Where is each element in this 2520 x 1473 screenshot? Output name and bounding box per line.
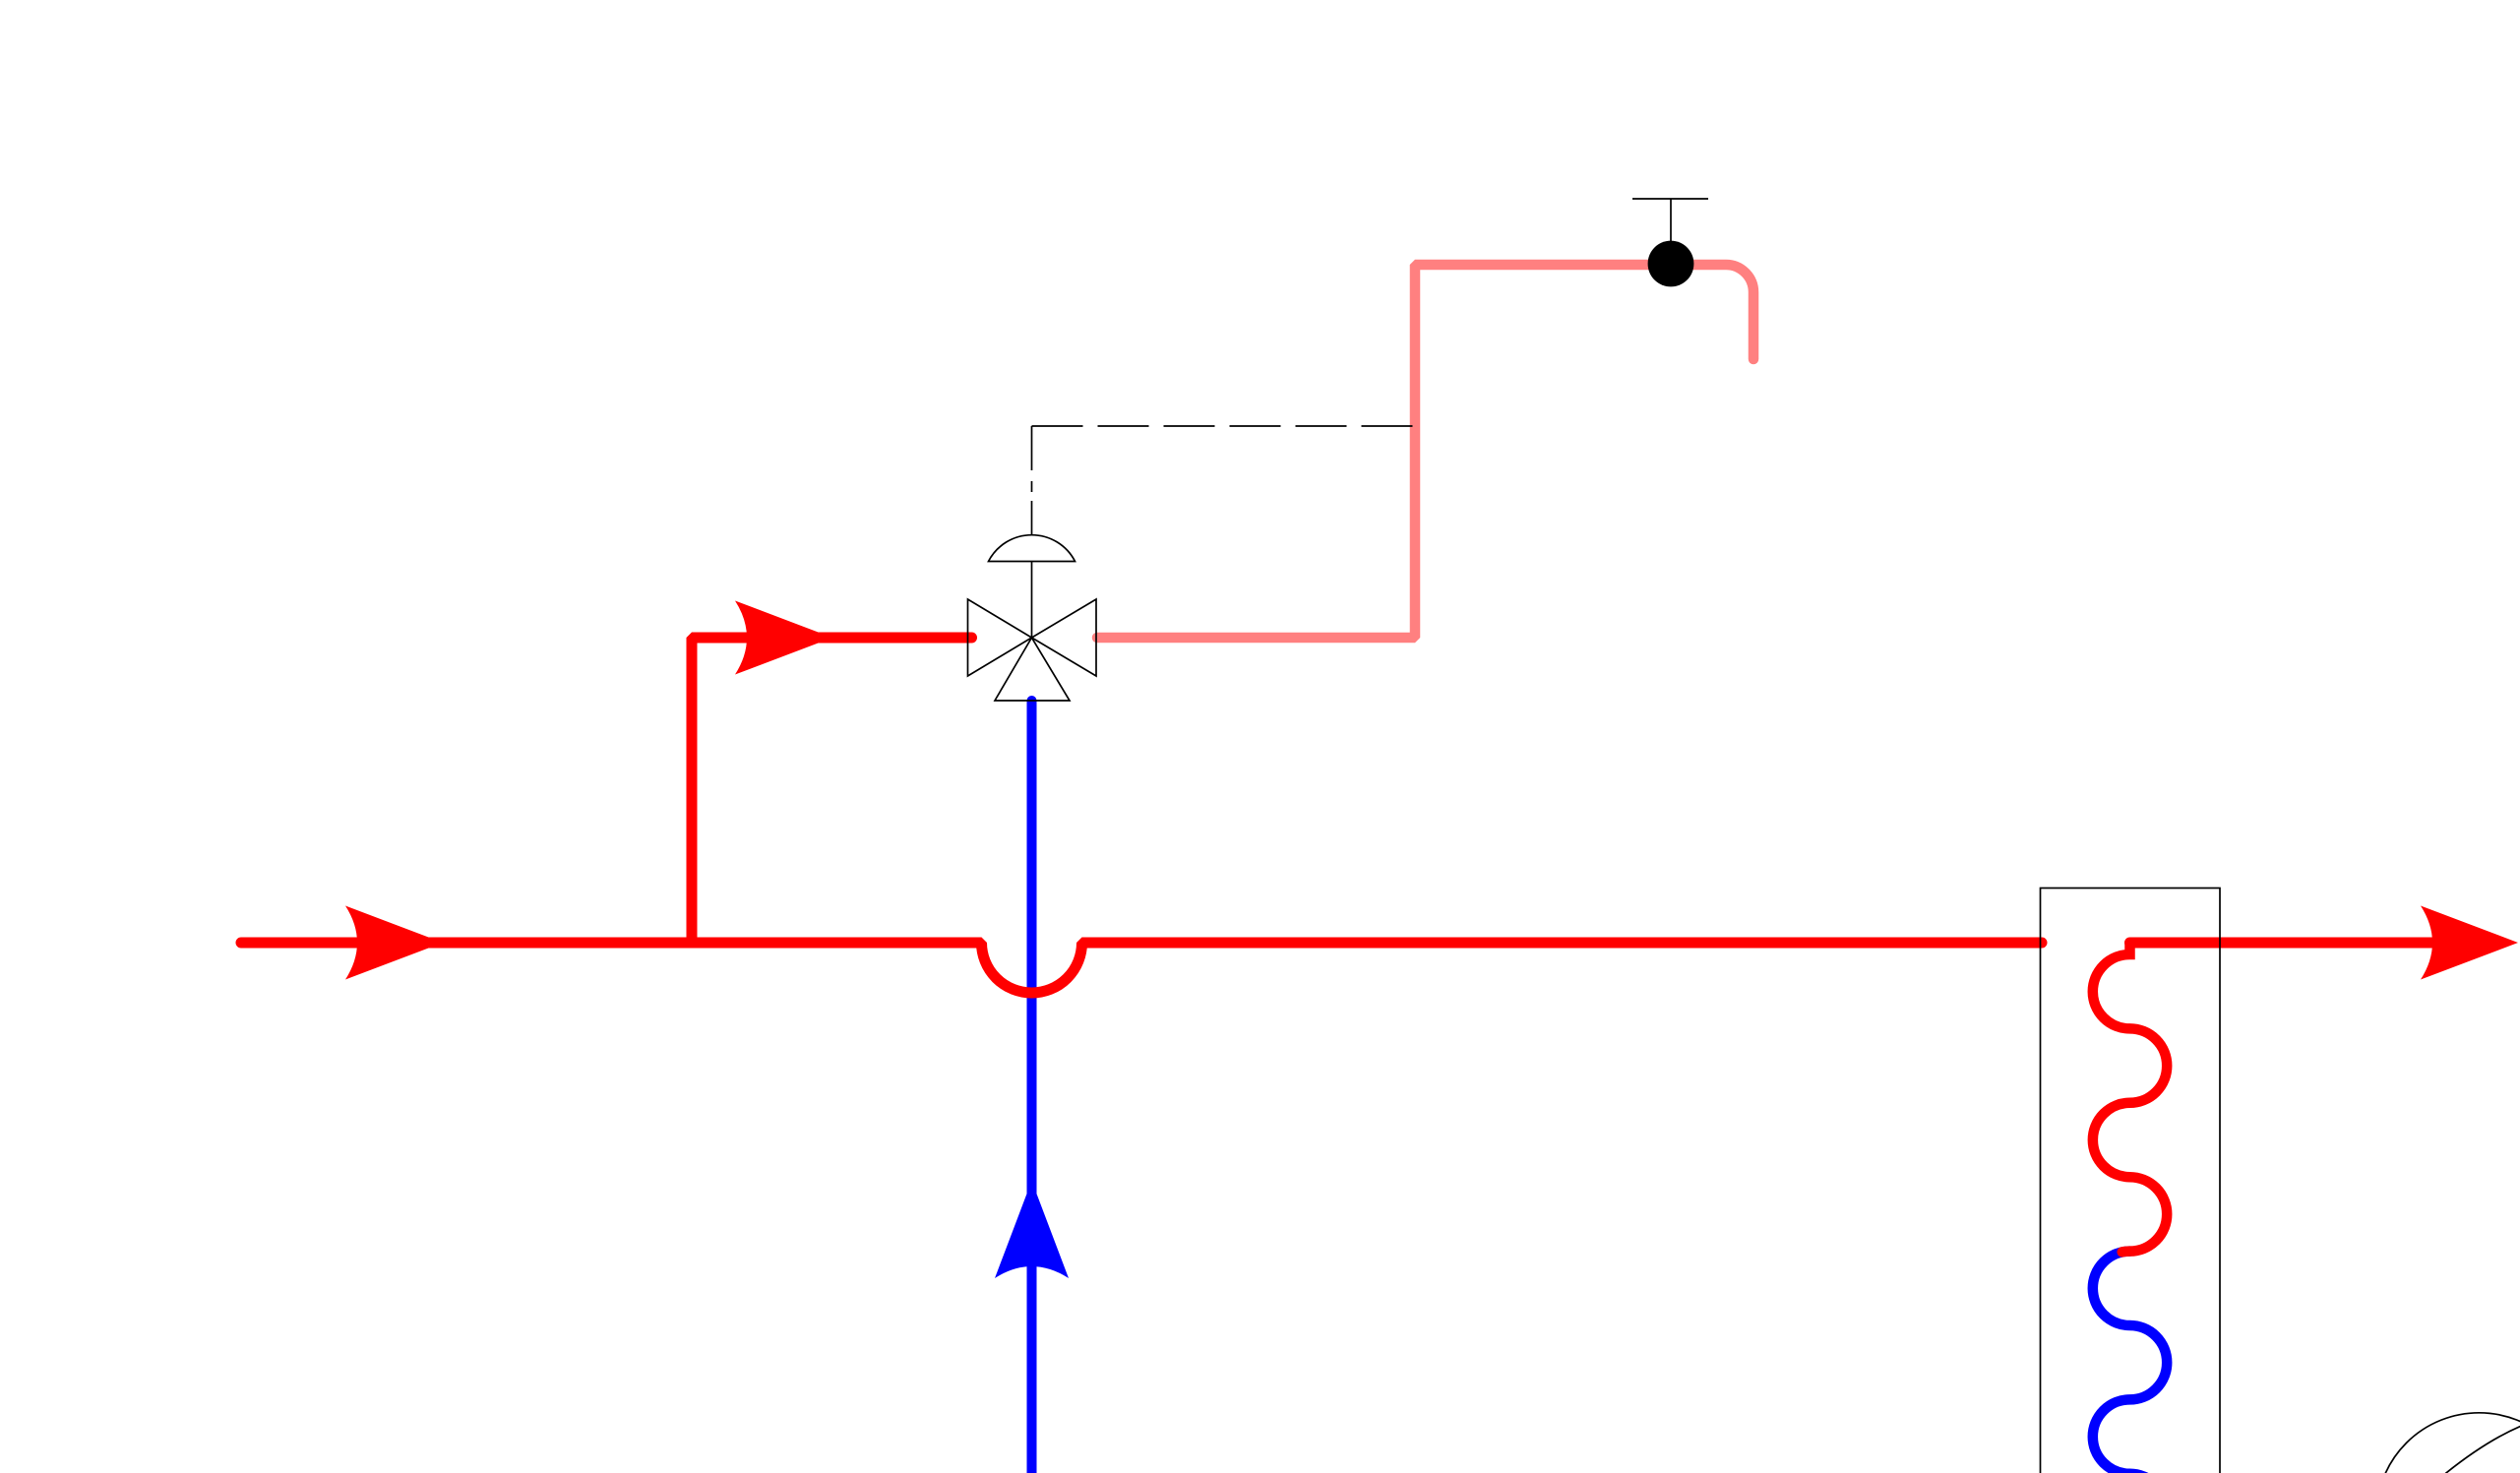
heat exchanger casing (rectangle)	[2041, 889, 2221, 1473]
pump P1 (circle, partially visible bottom-right)	[2376, 1413, 2520, 1473]
temperature sensor top bar	[1632, 198, 1708, 200]
red coil section in heat exchanger	[2093, 943, 2167, 1252]
three-way valve V1: left triangle	[968, 599, 1032, 676]
flow arrow on red outlet pipe	[2421, 906, 2518, 980]
temperature sensor stem	[1670, 199, 1672, 241]
flow arrow on red branch pipe	[735, 601, 832, 675]
temperature sensor bulb on pink pipe	[1648, 241, 1694, 287]
wire: red outlet pipe from coil	[2130, 938, 2481, 949]
dashed control signal line (vertical from actuator)	[1031, 426, 1033, 501]
flow arrow on blue riser (pointing up)	[995, 1181, 1069, 1278]
wire: pink mixed-water pipe from valve outlet	[1097, 265, 1753, 638]
wire: red branch pipe to valve inlet	[692, 638, 972, 943]
wire: blue cold-water supply riser	[1027, 701, 1037, 1473]
three-way valve V1: bottom triangle	[995, 638, 1070, 701]
valve actuator dome	[989, 535, 1076, 562]
wire: red hot supply main pipe with hop over blue riser	[241, 943, 2042, 993]
blue coil section in heat exchanger	[2093, 1252, 2167, 1473]
valve actuator stem	[1031, 501, 1033, 638]
dashed control signal line (horizontal to sensor pipe)	[1032, 425, 1415, 427]
pump impeller curve	[2441, 1425, 2520, 1473]
three-way valve V1: right triangle	[1032, 599, 1097, 676]
flow arrow on red main pipe	[345, 906, 443, 980]
